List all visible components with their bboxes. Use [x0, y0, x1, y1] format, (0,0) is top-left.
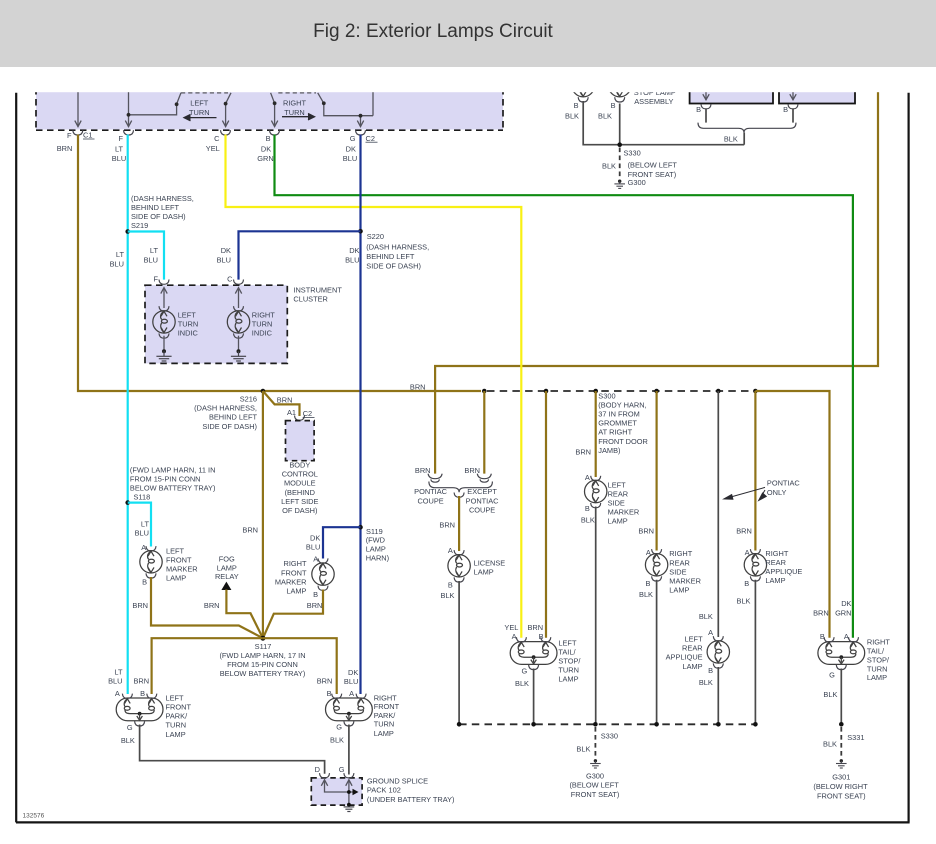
svg-text:ASSEMBLY: ASSEMBLY [634, 97, 673, 106]
svg-text:(BELOW LEFT: (BELOW LEFT [628, 161, 678, 170]
svg-text:LAMP: LAMP [286, 587, 306, 596]
svg-text:LAMP: LAMP [374, 729, 394, 738]
wire BLK S331 to G301 (dashed) [840, 727, 842, 758]
pin G connector ground splice pack [344, 773, 354, 778]
svg-text:BLK: BLK [823, 690, 837, 699]
svg-text:TAIL/: TAIL/ [867, 647, 885, 656]
pin F connector C1 [73, 130, 83, 135]
right tail stop turn lamp [818, 637, 865, 669]
wires from boxes to brace [706, 109, 793, 123]
svg-text:G: G [350, 134, 356, 143]
svg-text:COUPE: COUPE [469, 505, 495, 514]
svg-text:DK: DK [261, 144, 271, 153]
wire BLK right rear side marker to ground bus [656, 580, 658, 725]
svg-text:(BODY HARN,: (BODY HARN, [598, 400, 646, 409]
svg-text:TURN: TURN [189, 108, 210, 117]
svg-text:BELOW BATTERY TRAY): BELOW BATTERY TRAY) [130, 484, 216, 493]
ground G300 (top) [614, 180, 625, 189]
svg-text:BLK: BLK [441, 591, 455, 600]
svg-text:(BEHIND: (BEHIND [285, 488, 315, 497]
svg-text:RIGHT: RIGHT [252, 310, 275, 319]
wire YEL from pin C down and across [226, 135, 522, 638]
ground splice pack internals [321, 780, 352, 805]
pin B connector box 2 [788, 104, 798, 109]
svg-text:SIDE OF DASH): SIDE OF DASH) [202, 422, 257, 431]
svg-text:SIDE OF DASH): SIDE OF DASH) [366, 262, 421, 271]
svg-text:BRN: BRN [57, 144, 73, 153]
wire BRN bus to right tail pin B [755, 391, 829, 638]
wire BLK left rear side marker to ground bus [595, 507, 597, 725]
svg-text:A: A [349, 689, 354, 698]
svg-text:BRN: BRN [307, 601, 323, 610]
svg-text:G: G [127, 723, 133, 732]
splice S219 [125, 229, 130, 234]
svg-text:37 IN FROM: 37 IN FROM [598, 410, 639, 419]
right rear applique lamp [744, 549, 766, 581]
svg-text:LAMP: LAMP [765, 576, 785, 585]
wire BRN to right rear side marker [655, 391, 657, 551]
svg-text:(DASH HARNESS,: (DASH HARNESS, [131, 194, 194, 203]
dashed ground bus (rear) [459, 723, 755, 725]
svg-text:BLK: BLK [598, 112, 612, 121]
svg-text:B: B [783, 105, 788, 114]
left rear applique lamp [707, 636, 729, 668]
svg-text:LAMP: LAMP [682, 662, 702, 671]
svg-text:B: B [140, 689, 145, 698]
svg-text:LAMP: LAMP [558, 675, 578, 684]
right front marker lamp [312, 558, 334, 590]
svg-text:B: B [448, 581, 453, 590]
svg-text:B: B [142, 578, 147, 587]
wire BLK left park turn G to ground splice pack pin D [140, 725, 325, 774]
right turn switch [271, 92, 373, 127]
svg-text:BRN: BRN [204, 601, 220, 610]
body control module box [286, 421, 315, 461]
svg-text:MODULE: MODULE [284, 479, 316, 488]
pin F connector [124, 130, 134, 135]
svg-text:TURN: TURN [374, 720, 395, 729]
left turn indicator lamp [161, 288, 167, 308]
svg-text:B: B [744, 579, 749, 588]
svg-text:DK: DK [346, 144, 356, 153]
svg-text:BLK: BLK [823, 739, 837, 748]
svg-text:PARK/: PARK/ [374, 711, 397, 720]
svg-text:PACK 102: PACK 102 [367, 786, 401, 795]
svg-text:BELOW BATTERY TRAY): BELOW BATTERY TRAY) [220, 669, 306, 678]
wire BRN S216 to body control module [263, 391, 300, 416]
svg-text:STOP/: STOP/ [867, 656, 890, 665]
svg-text:A: A [844, 632, 849, 641]
left front marker lamp [140, 546, 162, 578]
svg-text:B: B [266, 134, 271, 143]
svg-text:FROM 15-PIN CONN: FROM 15-PIN CONN [130, 474, 201, 483]
svg-text:A: A [512, 632, 517, 641]
svg-text:PONTIAC: PONTIAC [414, 487, 448, 496]
svg-text:S219: S219 [131, 221, 148, 230]
svg-text:APPLIQUE: APPLIQUE [666, 653, 703, 662]
wire BLK left tail G to ground bus [533, 669, 535, 725]
stop lamp assembly right lamp (cut off) [609, 70, 631, 102]
svg-text:(BELOW LEFT: (BELOW LEFT [569, 781, 619, 790]
svg-text:132576: 132576 [23, 813, 45, 820]
svg-text:LT: LT [150, 246, 159, 255]
svg-text:TAIL/: TAIL/ [558, 647, 576, 656]
svg-text:RIGHT: RIGHT [765, 549, 788, 558]
svg-text:C2: C2 [366, 134, 375, 143]
svg-text:DK: DK [348, 668, 358, 677]
svg-text:INDIC: INDIC [178, 329, 199, 338]
svg-text:GROMMET: GROMMET [598, 419, 637, 428]
wire to pin F (inside switch box) [125, 92, 131, 127]
svg-text:BLK: BLK [639, 590, 653, 599]
ground G300 (bottom) [590, 759, 601, 768]
left front park turn lamp [116, 694, 163, 726]
svg-text:(BELOW RIGHT: (BELOW RIGHT [813, 782, 868, 791]
svg-text:BLK: BLK [565, 112, 579, 121]
svg-text:REAR: REAR [608, 489, 629, 498]
svg-text:LAMP: LAMP [366, 545, 386, 554]
svg-text:BRN: BRN [575, 447, 591, 456]
svg-text:ONLY: ONLY [767, 488, 787, 497]
dashed BRN feed bus (body harness) [487, 390, 755, 392]
svg-text:S216: S216 [240, 395, 257, 404]
svg-text:BLK: BLK [515, 679, 529, 688]
turn signal switch box (top, cut off) [36, 88, 503, 130]
svg-text:GRN: GRN [257, 154, 273, 163]
left turn arrow [184, 114, 217, 120]
wire BRN to left tail stop turn pin B [545, 391, 547, 638]
svg-text:PARK/: PARK/ [166, 712, 189, 721]
svg-text:LEFT: LEFT [685, 635, 704, 644]
svg-text:S330: S330 [601, 731, 618, 740]
wire BRN to license lamp [458, 496, 460, 551]
svg-text:CONTROL: CONTROL [282, 470, 318, 479]
svg-text:HARN): HARN) [366, 553, 389, 562]
svg-text:BEHIND LEFT: BEHIND LEFT [131, 203, 180, 212]
svg-text:LAMP: LAMP [166, 730, 186, 739]
right turn indicator lamp [235, 288, 241, 308]
ground below ground splice pack [344, 807, 355, 812]
svg-text:BLU: BLU [108, 676, 122, 685]
wire DK BLU branch S119 to right front marker [323, 527, 361, 558]
svg-text:S220: S220 [367, 232, 384, 241]
svg-text:BLK: BLK [699, 678, 713, 687]
wire BRN S216 drop to S117 [262, 391, 264, 638]
svg-text:BRN: BRN [277, 396, 293, 405]
svg-text:TURN: TURN [558, 666, 579, 675]
svg-text:REAR: REAR [682, 644, 703, 653]
svg-text:A: A [313, 555, 318, 564]
svg-text:S117: S117 [255, 642, 272, 651]
svg-text:RELAY: RELAY [215, 572, 239, 581]
wire LT BLU from pin F down [127, 135, 129, 695]
in-line connector except pontiac coupe [477, 474, 491, 483]
svg-text:BLU: BLU [144, 255, 158, 264]
ground G301 [836, 759, 847, 768]
svg-text:RIGHT: RIGHT [867, 637, 890, 646]
svg-text:BLK: BLK [576, 745, 590, 754]
svg-text:INSTRUMENT: INSTRUMENT [293, 285, 342, 294]
svg-text:FRONT: FRONT [166, 555, 192, 564]
svg-text:TURN: TURN [178, 319, 199, 328]
left tail stop turn lamp [510, 637, 557, 669]
right rear side marker lamp [645, 549, 667, 581]
svg-text:DK: DK [841, 599, 851, 608]
svg-text:BLK: BLK [724, 134, 738, 143]
wire BRN right front marker to S117 [263, 590, 323, 639]
wire BRN except pontiac coupe drop [483, 391, 485, 474]
svg-text:RIGHT: RIGHT [374, 694, 397, 703]
svg-text:BRN: BRN [813, 608, 829, 617]
svg-text:BRN: BRN [736, 526, 752, 535]
svg-text:BRN: BRN [439, 520, 455, 529]
svg-text:G: G [829, 670, 835, 679]
wire BRN S117 to left front park turn pin B [152, 638, 263, 694]
svg-text:BEHIND LEFT: BEHIND LEFT [209, 413, 258, 422]
wire LT BLU branch S219 to cluster pin F [128, 232, 164, 280]
instrument cluster box [145, 285, 287, 363]
wire BRN fog lamp relay to S117 [226, 590, 263, 639]
svg-text:BLK: BLK [737, 597, 751, 606]
svg-text:SIDE: SIDE [669, 567, 686, 576]
pin G connector C2 [356, 130, 366, 135]
svg-text:RIGHT: RIGHT [669, 549, 692, 558]
wire DK BLU from pin G down [359, 135, 361, 695]
svg-text:B: B [539, 632, 544, 641]
wire BLK from right stop lamp [619, 104, 621, 145]
svg-text:APPLIQUE: APPLIQUE [765, 567, 802, 576]
svg-text:FOG: FOG [219, 554, 235, 563]
svg-text:MARKER: MARKER [166, 565, 198, 574]
svg-text:LEFT SIDE: LEFT SIDE [281, 497, 318, 506]
svg-text:(DASH HARNESS,: (DASH HARNESS, [194, 404, 257, 413]
svg-text:RIGHT: RIGHT [284, 559, 307, 568]
splice S220 [358, 229, 363, 234]
ground splice pack 102 box [311, 778, 362, 805]
svg-text:A: A [708, 628, 713, 637]
wire BRN right side from top of page down to junction [435, 92, 878, 474]
svg-text:BLU: BLU [344, 677, 358, 686]
svg-text:RIGHT: RIGHT [283, 99, 306, 108]
wire BLK from brace to S330 [743, 133, 745, 145]
svg-text:LEFT: LEFT [608, 480, 627, 489]
svg-text:G: G [339, 765, 345, 774]
svg-text:F: F [67, 131, 72, 140]
svg-text:BEHIND LEFT: BEHIND LEFT [366, 252, 415, 261]
junction dots on ground bus [457, 722, 462, 727]
svg-text:G300: G300 [586, 771, 604, 780]
wire DK GRN from pin B down and across [275, 135, 853, 638]
svg-text:SIDE OF DASH): SIDE OF DASH) [131, 212, 186, 221]
svg-text:D: D [315, 765, 320, 774]
svg-text:A: A [448, 546, 453, 555]
svg-text:(UNDER BATTERY TRAY): (UNDER BATTERY TRAY) [367, 795, 455, 804]
svg-text:BRN: BRN [132, 601, 148, 610]
wire BLK S330 to G300 (dashed, bottom) [594, 727, 596, 758]
svg-text:BLU: BLU [135, 528, 149, 537]
svg-text:PONTIAC: PONTIAC [767, 479, 801, 488]
title bar [0, 0, 936, 67]
pin B connector [270, 130, 280, 135]
left rear side marker lamp [585, 476, 607, 508]
pin D connector ground splice pack [320, 773, 330, 778]
svg-text:DK: DK [310, 533, 320, 542]
wire BRN from pin F C1 down and across (main feed bus) [78, 135, 481, 392]
in-line connector pontiac coupe [428, 474, 442, 483]
svg-text:MARKER: MARKER [608, 508, 640, 517]
rear lamp box 2 (cut off) [779, 85, 855, 104]
svg-text:JAMB): JAMB) [598, 446, 620, 455]
wire LT BLU branch S118 to left front marker [128, 503, 151, 547]
svg-text:A: A [585, 473, 590, 482]
svg-text:CLUSTER: CLUSTER [293, 295, 328, 304]
svg-text:C2: C2 [303, 409, 312, 418]
svg-text:YEL: YEL [504, 623, 518, 632]
svg-text:LT: LT [114, 667, 123, 676]
svg-text:LEFT: LEFT [558, 638, 577, 647]
svg-text:BRN: BRN [134, 676, 150, 685]
svg-text:(FWD LAMP HARN, 17 IN: (FWD LAMP HARN, 17 IN [219, 651, 305, 660]
svg-text:BRN: BRN [528, 623, 544, 632]
splice S300 on dashed feed [482, 389, 487, 394]
svg-text:BLU: BLU [217, 255, 231, 264]
pin A1 C2 connector body control module [295, 416, 305, 421]
svg-text:LAMP: LAMP [867, 673, 887, 682]
svg-text:C1: C1 [83, 131, 92, 140]
svg-text:LT: LT [116, 250, 125, 259]
splice S118 [125, 500, 130, 505]
svg-text:(FWD LAMP HARN, 11 IN: (FWD LAMP HARN, 11 IN [130, 465, 216, 474]
svg-text:TURN: TURN [252, 319, 273, 328]
svg-text:BLK: BLK [581, 516, 595, 525]
svg-text:B: B [327, 689, 332, 698]
svg-text:A: A [115, 689, 120, 698]
svg-text:F: F [118, 134, 123, 143]
svg-text:A1: A1 [287, 408, 296, 417]
svg-text:FRONT: FRONT [281, 568, 307, 577]
svg-text:A: A [646, 548, 651, 557]
svg-text:BODY: BODY [289, 461, 310, 470]
wire BLK license lamp to ground bus [458, 581, 460, 724]
svg-text:GRN: GRN [835, 608, 851, 617]
svg-text:GROUND SPLICE: GROUND SPLICE [367, 777, 428, 786]
svg-text:BLK: BLK [699, 612, 713, 621]
svg-text:FRONT DOOR: FRONT DOOR [598, 437, 648, 446]
top crop cover [0, 67, 936, 92]
svg-text:BLU: BLU [306, 542, 320, 551]
svg-text:G: G [336, 723, 342, 732]
wire to pin F C1 (inside switch box) [75, 92, 81, 127]
svg-text:BRN: BRN [415, 466, 431, 475]
svg-text:BLU: BLU [345, 255, 359, 264]
brace joining box wires [698, 123, 796, 133]
svg-text:TURN: TURN [867, 664, 888, 673]
wire BLK S330 to G300 (dashed) [619, 148, 621, 179]
svg-text:G301: G301 [832, 773, 850, 782]
wire BLK left rear applique to ground bus [717, 667, 719, 724]
svg-text:FRONT: FRONT [374, 702, 400, 711]
wire BLK to left rear applique lamp (pontiac only) [717, 391, 719, 637]
splice S216 [261, 389, 266, 394]
splice S117 star junction [260, 636, 265, 641]
svg-text:(FWD: (FWD [366, 536, 385, 545]
svg-text:TURN: TURN [284, 108, 305, 117]
svg-text:S118: S118 [134, 492, 151, 501]
svg-text:LEFT: LEFT [166, 546, 185, 555]
svg-text:BRN: BRN [464, 466, 480, 475]
svg-text:LEFT: LEFT [166, 693, 185, 702]
svg-text:YEL: YEL [206, 144, 220, 153]
svg-text:G300: G300 [628, 178, 646, 187]
svg-text:BLU: BLU [110, 259, 124, 268]
brace merging license feeds [429, 482, 493, 493]
svg-text:DK: DK [349, 246, 359, 255]
svg-text:BRN: BRN [638, 526, 654, 535]
svg-text:(DASH HARNESS,: (DASH HARNESS, [366, 242, 429, 251]
right front park turn lamp [326, 694, 373, 726]
svg-text:EXCEPT: EXCEPT [467, 487, 497, 496]
rear lamp box 1 (cut off) [690, 85, 773, 104]
svg-text:BLK: BLK [602, 162, 616, 171]
svg-text:LEFT: LEFT [190, 99, 209, 108]
svg-text:BLU: BLU [112, 154, 126, 163]
svg-text:LAMP: LAMP [608, 517, 628, 526]
pin C connector instrument cluster [234, 280, 244, 285]
svg-text:STOP/: STOP/ [558, 657, 581, 666]
pin C connector [221, 130, 231, 135]
svg-text:PONTIAC: PONTIAC [466, 496, 500, 505]
svg-text:BLK: BLK [121, 736, 135, 745]
svg-text:BRN: BRN [410, 383, 426, 392]
svg-text:AT RIGHT: AT RIGHT [598, 428, 632, 437]
splice S330 (top) [617, 142, 622, 147]
svg-text:B: B [696, 105, 701, 114]
svg-text:B: B [820, 632, 825, 641]
svg-text:B: B [645, 579, 650, 588]
svg-text:A: A [745, 548, 750, 557]
svg-text:FRONT: FRONT [166, 703, 192, 712]
svg-text:FRONT SEAT): FRONT SEAT) [571, 790, 620, 799]
svg-text:B: B [574, 101, 579, 110]
svg-text:S330: S330 [624, 148, 641, 157]
svg-text:LT: LT [115, 144, 124, 153]
stop lamp assembly left lamp (cut off) [572, 70, 594, 102]
wire BRN S117 to right front park turn pin B [263, 638, 337, 694]
splice S119 [358, 525, 363, 530]
splice S331 [839, 722, 844, 727]
svg-text:MARKER: MARKER [669, 577, 701, 586]
wire BLK from left stop lamp [583, 101, 744, 145]
svg-text:B: B [585, 504, 590, 513]
license lamp [448, 550, 470, 582]
svg-text:C: C [227, 274, 233, 283]
svg-text:LAMP: LAMP [474, 567, 494, 576]
svg-text:MARKER: MARKER [275, 577, 307, 586]
left turn switch [129, 93, 232, 127]
svg-text:REAR: REAR [669, 558, 690, 567]
wire BLK right rear applique to ground bus [754, 580, 756, 725]
svg-text:B: B [611, 101, 616, 110]
pin B connector box 1 [701, 104, 711, 109]
svg-text:DK: DK [221, 246, 231, 255]
svg-text:BRN: BRN [317, 676, 333, 685]
svg-text:OF DASH): OF DASH) [282, 506, 317, 515]
svg-text:FRONT SEAT): FRONT SEAT) [817, 791, 866, 800]
svg-text:LT: LT [141, 519, 150, 528]
svg-text:G: G [521, 666, 527, 675]
svg-text:S331: S331 [847, 733, 864, 742]
svg-text:BRN: BRN [242, 525, 258, 534]
